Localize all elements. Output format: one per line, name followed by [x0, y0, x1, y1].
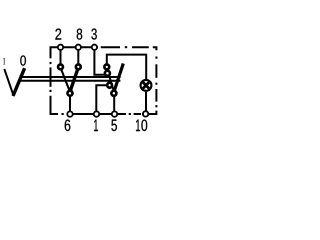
label a0 — [20, 55, 26, 65]
label 2 — [55, 29, 61, 40]
wire terminal2 to pivot — [60, 48, 62, 64]
frame top-right corner — [153, 47, 157, 50]
pole1 pivot contact 2 — [58, 64, 63, 69]
label 5 — [111, 120, 117, 132]
mechanical coupling double bar — [20, 76, 121, 78]
wire ring B to terminal 5 — [113, 95, 115, 113]
terminal 1 — [94, 111, 99, 116]
bottom rail solid at terminal 10 — [142, 113, 156, 115]
frame top-left corner and solid top rail — [51, 47, 99, 58]
frame bottom dash — [134, 113, 141, 115]
lamp pole contact P2 — [105, 71, 110, 76]
label 6 — [65, 120, 71, 132]
wire terminal1 L-feed — [96, 85, 107, 113]
lamp pole contact B — [111, 91, 116, 96]
label 8 — [77, 29, 83, 40]
lamp vertical to terminal 10 — [145, 92, 147, 113]
lamp pole contact A — [107, 83, 112, 88]
wire terminal3 L-feed — [94, 48, 105, 75]
wire terminal8 to pivot — [77, 48, 79, 64]
actuator lever position I (thin stroke) — [4, 69, 13, 95]
label t0 — [141, 120, 147, 132]
terminal 10 — [143, 111, 148, 116]
lamp cross — [143, 82, 149, 88]
frame top dash-dot (right of circle 3) — [101, 46, 120, 48]
terminal 8 — [76, 45, 81, 50]
pole1 common contact ring — [67, 91, 72, 96]
terminal 3 — [92, 45, 97, 50]
terminal 5 — [112, 111, 117, 116]
frame bottom-right corner — [149, 111, 156, 114]
lamp L1 — [141, 80, 152, 91]
pole1 pivot contact 8 — [76, 64, 81, 69]
wire ring to terminal 6 — [69, 96, 71, 113]
pole1 moving arm thick — [70, 68, 79, 93]
terminal 2 — [58, 45, 63, 50]
lamp pole thin arm — [107, 69, 114, 92]
actuator lever position 0 (thick stroke) — [13, 68, 25, 96]
label I — [3, 58, 5, 65]
frame bottom-left corner — [51, 96, 59, 114]
label 3 — [91, 29, 96, 40]
lamp supply line (inner corner) — [107, 55, 146, 80]
frame left edge dash-dot — [50, 62, 52, 64]
terminal 6 — [67, 111, 72, 116]
pole1 moving arm thin — [61, 68, 71, 93]
lamp pole pivot P1 — [104, 64, 109, 69]
frame bottom dash-dot dot 2 — [129, 113, 131, 115]
switch schematic drawing — [0, 0, 160, 160]
frame right edge dash-dot — [155, 57, 157, 59]
frame bottom dash-dot dot — [62, 113, 64, 115]
label 1 — [94, 120, 98, 132]
bottom rail solid 6-1-5 — [67, 113, 127, 115]
lamp pole thick arm — [114, 64, 124, 93]
label t1 — [136, 120, 140, 132]
